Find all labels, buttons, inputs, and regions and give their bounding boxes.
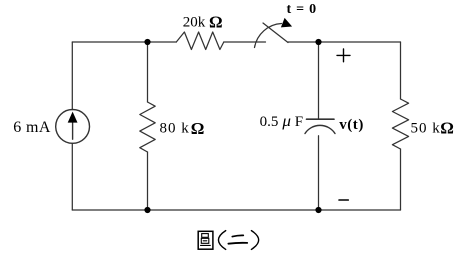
caption glyph 圖 bottom stroke	[201, 244, 211, 246]
svg-text:0.5μF: 0.5μF	[260, 113, 304, 130]
plus polarity sign	[337, 49, 350, 62]
wire: left branch lower	[71, 143, 73, 210]
svg-text:v(t): v(t)	[339, 117, 364, 133]
node: top junction at capacitor	[315, 39, 321, 45]
svg-text:20k: 20k	[183, 14, 206, 30]
node: bottom junction at capacitor	[315, 207, 321, 213]
svg-text:Ω: Ω	[440, 119, 454, 138]
wire: top rail right segment	[288, 41, 401, 43]
capacitor curved plate	[305, 125, 335, 133]
node: bottom junction at 80k	[144, 207, 150, 213]
svg-text:Ω: Ω	[209, 13, 223, 32]
resistor 80kΩ	[140, 102, 155, 152]
wire: left branch upper	[71, 42, 73, 110]
node: top junction at 80k	[144, 39, 150, 45]
wire: capacitor branch upper	[318, 42, 320, 119]
caption glyph 圖 outer box	[198, 231, 213, 249]
resistor 50kΩ	[392, 99, 408, 149]
switch blade	[263, 23, 288, 43]
wire: bottom rail	[72, 209, 400, 211]
current source circle	[56, 110, 90, 144]
capacitor top plate	[307, 118, 335, 120]
minus polarity sign	[339, 199, 348, 201]
current source arrow shaft	[72, 119, 74, 139]
svg-text:80 k: 80 k	[160, 121, 190, 137]
wire: capacitor branch lower	[318, 136, 320, 210]
wire: 80k branch lower	[147, 152, 149, 210]
wire: right branch lower	[400, 149, 402, 210]
caption glyph 圖 inner top box	[202, 234, 209, 238]
switch motion arc	[255, 24, 282, 48]
caption close parenthesis	[251, 231, 258, 250]
resistor 20kΩ	[176, 32, 224, 50]
caption glyph 二 top stroke	[232, 235, 243, 236]
svg-text:t = 0: t = 0	[287, 2, 317, 17]
svg-text:6 mA: 6 mA	[13, 119, 51, 136]
caption glyph 圖 inner middle box	[201, 238, 209, 243]
wire: 80k branch upper	[147, 42, 149, 102]
current source arrowhead	[68, 112, 78, 123]
svg-text:Ω: Ω	[191, 119, 205, 138]
svg-text:50 k: 50 k	[411, 120, 441, 136]
switch arrowhead	[281, 18, 292, 28]
wire: top rail left segment	[72, 41, 176, 43]
caption glyph 二 bottom stroke	[228, 242, 247, 245]
wire: right branch upper	[400, 42, 402, 99]
wire: top rail to switch	[224, 41, 266, 43]
caption open parenthesis	[218, 231, 225, 250]
